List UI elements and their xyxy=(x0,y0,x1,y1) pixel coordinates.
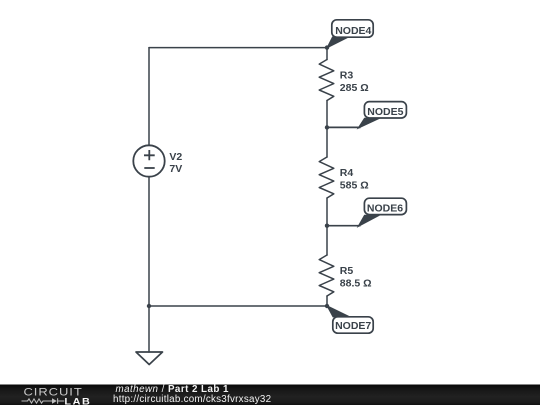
svg-text:585 Ω: 585 Ω xyxy=(340,180,369,192)
resistor R3 xyxy=(319,60,334,101)
wire left vertical lower xyxy=(148,177,150,306)
logo wire glyph xyxy=(22,398,65,403)
wire node6 to R5 xyxy=(326,226,328,255)
label R4 xyxy=(340,167,369,192)
wire left vertical upper xyxy=(148,48,150,146)
junction node4 xyxy=(325,45,329,49)
wire R5 to node7 xyxy=(326,296,328,306)
node NODE4 flag xyxy=(327,20,373,48)
junction ground node xyxy=(147,304,151,308)
svg-text:LAB: LAB xyxy=(64,397,91,405)
wire R4 to node6 xyxy=(326,198,328,226)
voltage source V2 xyxy=(133,145,164,176)
resistor R4 xyxy=(319,157,334,198)
node NODE7 flag xyxy=(327,306,373,333)
junction node5 xyxy=(325,125,329,129)
label V2 7V xyxy=(169,151,182,175)
svg-text:V2: V2 xyxy=(169,151,182,163)
label R3 xyxy=(340,69,369,94)
svg-text:NODE7: NODE7 xyxy=(335,320,371,332)
svg-text:NODE4: NODE4 xyxy=(335,25,371,37)
wire top horizontal xyxy=(149,47,327,49)
wire bottom horizontal xyxy=(149,305,327,307)
wire node5 to R4 xyxy=(326,127,328,157)
svg-text:R5: R5 xyxy=(340,265,354,277)
svg-text:285 Ω: 285 Ω xyxy=(340,82,369,94)
label R5 xyxy=(340,265,372,290)
junction node7 xyxy=(325,304,329,308)
wire ground stub xyxy=(148,306,150,352)
resistor R5 xyxy=(319,255,334,296)
svg-text:R4: R4 xyxy=(340,167,354,179)
wire node4 to R3 xyxy=(326,48,328,60)
svg-text:88.5 Ω: 88.5 Ω xyxy=(340,278,372,290)
node NODE6 flag xyxy=(327,198,406,226)
ground xyxy=(136,352,163,365)
node NODE5 flag xyxy=(327,102,406,129)
svg-text:NODE6: NODE6 xyxy=(367,203,403,215)
junction node6 xyxy=(325,224,329,228)
svg-text:http://circuitlab.com/cks3fvrx: http://circuitlab.com/cks3fvrxsay32 xyxy=(113,394,271,405)
svg-text:7V: 7V xyxy=(169,163,182,175)
svg-text:NODE5: NODE5 xyxy=(367,106,403,118)
svg-text:R3: R3 xyxy=(340,69,354,81)
footer bar xyxy=(0,385,540,405)
wire R3 to node5 xyxy=(326,101,328,128)
logo diode xyxy=(52,398,57,404)
